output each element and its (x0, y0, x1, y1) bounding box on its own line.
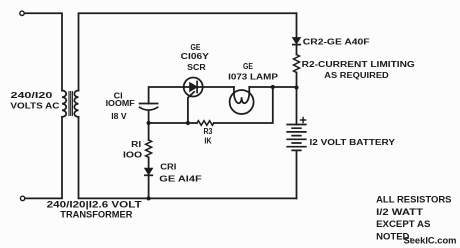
SCR gate (188, 92, 194, 123)
lamp filament (234, 87, 249, 103)
node CR1 bottom junction (147, 196, 151, 200)
wire gate line (149, 122, 197, 124)
terminal top-left (20, 11, 24, 15)
svg-text:I8 V: I8 V (111, 111, 127, 121)
node battery top junction (294, 85, 298, 89)
wire secondary bottom rail (79, 117, 297, 198)
svg-text:CI06Y: CI06Y (181, 51, 210, 61)
wire top-left rail (24, 13, 62, 90)
wire battery to bottom rail (296, 150, 298, 198)
svg-text:SCR: SCR (187, 62, 206, 72)
SCR cathode bar (196, 82, 198, 93)
SCR triangle (190, 83, 197, 92)
node C1 bottom junction (147, 121, 151, 125)
svg-text:EXCEPT AS: EXCEPT AS (376, 219, 431, 230)
SCR Q1 circle (184, 78, 203, 97)
resistor R1 (146, 140, 152, 157)
svg-text:GE AI4F: GE AI4F (159, 174, 201, 184)
diode CR2 (293, 38, 301, 44)
svg-text:I/2 WATT: I/2 WATT (376, 207, 423, 218)
wire primary bottom (25, 117, 62, 198)
node lamp right junction (271, 85, 275, 89)
svg-text:RI: RI (131, 139, 141, 149)
battery plus sign (301, 118, 306, 123)
svg-text:GE: GE (243, 61, 253, 71)
diode CR1 (145, 168, 153, 174)
svg-text:IK: IK (204, 136, 212, 146)
svg-text:I2 VOLT BATTERY: I2 VOLT BATTERY (310, 137, 396, 147)
wire node to R1 (148, 123, 150, 140)
wire lamp to bus (249, 86, 296, 88)
lamp DS1 circle (230, 90, 254, 114)
svg-text:AS REQUIRED: AS REQUIRED (324, 70, 388, 80)
svg-text:R2-CURRENT LIMITING: R2-CURRENT LIMITING (302, 59, 415, 69)
svg-text:CR2-GE A40F: CR2-GE A40F (303, 37, 370, 47)
SCR cathode wire (197, 86, 234, 88)
svg-text:VOLTS AC: VOLTS AC (10, 100, 59, 110)
svg-text:SeekIC.com: SeekIC.com (404, 236, 457, 246)
wire CR2 to R2 (296, 45, 298, 55)
svg-text:IOO: IOO (123, 150, 142, 160)
wire CR1 to rail (148, 175, 150, 198)
terminal bottom-left (20, 196, 24, 200)
wire secondary top rail (79, 13, 297, 90)
transformer core (69, 92, 72, 116)
svg-text:R3: R3 (204, 126, 213, 136)
svg-text:TRANSFORMER: TRANSFORMER (60, 209, 132, 220)
wire right bus top (296, 13, 298, 37)
wire R2 to node (296, 73, 298, 88)
capacitor C1 (140, 103, 158, 105)
wire R1 to CR1 (148, 157, 150, 168)
svg-text:240/I20: 240/I20 (11, 90, 53, 100)
wire anode rail from C1 corner to SCR (149, 87, 190, 104)
svg-text:I073 LAMP: I073 LAMP (228, 72, 278, 82)
svg-text:CRI: CRI (160, 162, 176, 172)
svg-text:IOOMF: IOOMF (106, 98, 135, 108)
wire node to battery (296, 88, 298, 125)
transformer T1 secondary winding (74, 91, 78, 117)
battery B1 (287, 125, 306, 147)
svg-text:ALL RESISTORS: ALL RESISTORS (376, 194, 452, 205)
node gate junction (186, 121, 190, 125)
resistor R2 (294, 55, 300, 73)
transformer T1 primary winding (62, 91, 66, 117)
resistor R3 (197, 121, 214, 126)
wire lamp junction down to R3 line (214, 87, 273, 123)
